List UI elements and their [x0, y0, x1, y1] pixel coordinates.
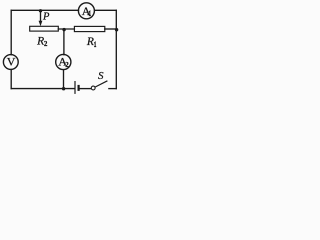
svg-text:S: S: [98, 70, 104, 82]
ammeter A1 circle: [78, 3, 94, 19]
wire left lower (voltmeter to corner): [10, 70, 12, 89]
resistor R1 box: [74, 26, 104, 31]
battery long plate: [74, 81, 76, 94]
battery short plate: [77, 85, 79, 91]
node dot: right border junction: [115, 28, 118, 31]
switch pivot circle: [91, 86, 95, 90]
wire switch stub to corner: [109, 88, 116, 90]
node dot: wiper on top wire: [39, 9, 42, 12]
wire top-left segment: [11, 9, 78, 11]
svg-text:2: 2: [44, 40, 48, 48]
wire right side: [115, 10, 117, 88]
svg-text:R: R: [86, 36, 94, 48]
svg-text:2: 2: [65, 61, 69, 69]
switch blade: [95, 81, 107, 87]
wire left upper (corner to voltmeter): [10, 10, 12, 54]
wire middle R2 to R1: [58, 28, 74, 30]
node dot: bottom junction: [62, 87, 65, 90]
svg-text:V: V: [7, 55, 16, 69]
wire junction down to A2: [63, 29, 65, 55]
ammeter A2 circle: [56, 54, 71, 69]
node dot: middle junction: [62, 28, 65, 31]
wire battery to switch: [79, 88, 91, 90]
wire A2 to bottom: [63, 70, 65, 89]
wire top-right segment: [95, 9, 117, 11]
wire bottom-left segment: [11, 88, 74, 90]
voltmeter V circle: [3, 55, 18, 70]
wire R1 to right border: [105, 28, 117, 30]
wiper arrowhead P: [39, 21, 43, 26]
resistor R2 box: [30, 26, 59, 31]
svg-text:P: P: [42, 11, 50, 22]
wire wiper vertical: [40, 10, 42, 21]
